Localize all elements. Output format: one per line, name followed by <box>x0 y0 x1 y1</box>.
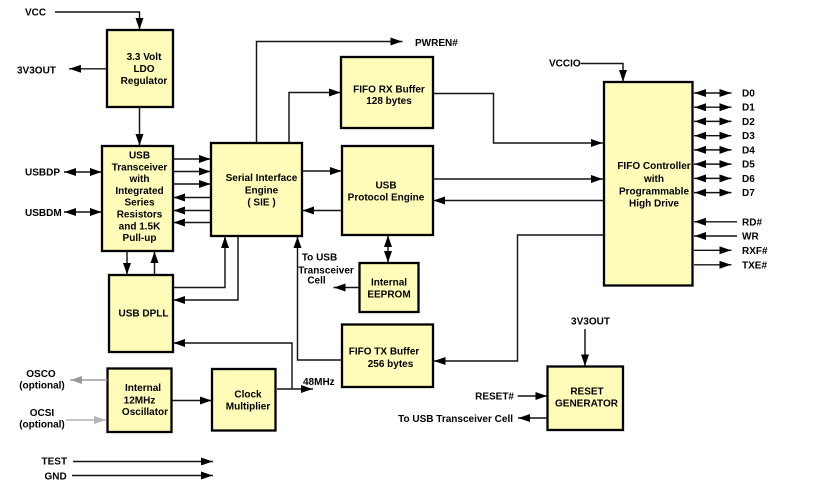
wire clock multiplier 48MHz out <box>277 388 313 390</box>
label TXE# <box>742 260 767 271</box>
svg-text:RD#: RD# <box>742 217 762 228</box>
wire protocol engine to FIFO controller <box>433 178 603 180</box>
label TEST <box>42 457 68 468</box>
wire TXE# out of controller <box>694 264 732 266</box>
wire D3 double arrow <box>694 135 732 137</box>
svg-text:USB DPLL: USB DPLL <box>119 309 169 320</box>
wire SIE to protocol engine <box>302 170 342 172</box>
label RD# <box>742 217 762 228</box>
svg-text:USBDM: USBDM <box>25 208 62 219</box>
wire FIFO controller to FIFO TX buffer <box>434 235 604 361</box>
svg-text:VCC: VCC <box>25 8 46 19</box>
wire RD# into controller <box>694 221 737 223</box>
wire GND arrow <box>72 475 213 477</box>
svg-text:3V3OUT: 3V3OUT <box>17 66 56 77</box>
wire USBDM double arrow <box>64 211 102 213</box>
wire OCSI gray <box>66 419 106 421</box>
label 48MHz <box>303 377 335 388</box>
label D7 <box>742 188 755 199</box>
wire D1 double arrow <box>694 106 732 108</box>
svg-text:InternalEEPROM: InternalEEPROM <box>367 278 410 301</box>
block FIFO Controller <box>604 82 693 286</box>
wire oscillator to clock multiplier <box>172 400 212 402</box>
label WR <box>742 232 759 243</box>
wire transceiver to SIE 2 <box>173 171 211 173</box>
svg-text:To USBTransceiverCell: To USBTransceiverCell <box>298 253 354 287</box>
wire transceiver to SIE 3 <box>173 183 211 185</box>
wire transceiver to DPLL <box>126 251 128 275</box>
svg-text:TXE#: TXE# <box>742 260 767 271</box>
svg-text:GND: GND <box>45 472 67 483</box>
wire SIE to DPLL <box>173 236 238 300</box>
wire D7 double arrow <box>694 192 732 194</box>
svg-text:USBDP: USBDP <box>25 168 60 179</box>
label D4 <box>742 145 755 156</box>
label OCSI (optional) <box>19 408 65 431</box>
block Serial Interface Engine <box>211 143 302 236</box>
block Internal EEPROM <box>360 263 419 312</box>
label VCC <box>25 8 46 19</box>
label D0 <box>742 89 755 100</box>
svg-text:PWREN#: PWREN# <box>415 38 458 49</box>
wire D5 double arrow <box>694 163 732 165</box>
wire 3V3OUT to reset generator <box>584 329 586 367</box>
label RESET# <box>475 392 514 403</box>
wire EEPROM to USB transceiver cell <box>334 287 360 289</box>
wire DPLL to SIE <box>173 236 225 288</box>
wire LDO to USB transceiver <box>139 107 141 146</box>
wire D6 double arrow <box>694 177 732 179</box>
block Clock Multiplier <box>212 369 276 431</box>
wire OSCO gray <box>70 379 108 381</box>
label D6 <box>742 174 755 185</box>
block USB Transceiver <box>102 146 173 251</box>
wire RESET# into reset generator <box>518 395 548 397</box>
block USB DPLL <box>109 275 173 352</box>
label VCCIO <box>549 59 581 70</box>
block Internal 12MHz Oscillator <box>108 369 172 433</box>
svg-text:VCCIO: VCCIO <box>549 59 581 70</box>
block USB Protocol Engine <box>342 146 433 235</box>
wire FIFO RX buffer to FIFO controller <box>433 94 603 144</box>
block RESET GENERATOR <box>548 367 624 431</box>
wire LDO to 3V3OUT <box>69 68 107 70</box>
label D2 <box>742 117 755 128</box>
wire VCC to LDO regulator <box>55 12 140 30</box>
wire SIE to transceiver 3 <box>173 222 211 224</box>
label PWREN# <box>415 38 458 49</box>
wire SIE to FIFO RX buffer <box>289 93 341 144</box>
label D3 <box>742 131 755 142</box>
svg-text:D3: D3 <box>742 131 755 142</box>
wire FIFO controller to protocol engine <box>433 200 603 202</box>
svg-text:RXF#: RXF# <box>742 246 768 257</box>
block FIFO TX Buffer <box>342 325 433 388</box>
svg-text:D1: D1 <box>742 103 755 114</box>
svg-text:D4: D4 <box>742 145 755 156</box>
svg-text:48MHz: 48MHz <box>303 377 335 388</box>
label 3V3OUT (bottom) <box>571 317 610 328</box>
label USBDP <box>25 168 60 179</box>
wire FIFO TX buffer to SIE <box>298 236 343 360</box>
label D1 <box>742 103 755 114</box>
wire SIE to transceiver 2 <box>173 210 211 212</box>
wire SIE to transceiver 1 <box>173 197 211 199</box>
wire RXF# out of controller <box>694 249 732 251</box>
svg-text:D5: D5 <box>742 160 755 171</box>
wire D0 double arrow <box>694 92 732 94</box>
label USBDM <box>25 208 62 219</box>
svg-text:3V3OUT: 3V3OUT <box>571 317 610 328</box>
wire USBDP double arrow <box>64 171 102 173</box>
svg-text:WR: WR <box>742 232 759 243</box>
wire D2 double arrow <box>694 120 732 122</box>
wire DPLL to transceiver <box>154 251 156 275</box>
svg-text:OCSI(optional): OCSI(optional) <box>19 408 65 431</box>
label 3V3OUT <box>17 66 56 77</box>
block FIFO RX Buffer <box>341 57 433 128</box>
label RXF# <box>742 246 768 257</box>
svg-text:RESET#: RESET# <box>475 392 514 403</box>
wire transceiver to SIE 1 <box>173 158 211 160</box>
wire VCCIO to FIFO controller <box>581 64 624 83</box>
wire 48MHz to DPLL <box>173 343 292 389</box>
svg-text:D2: D2 <box>742 117 755 128</box>
label OSCO (optional) <box>19 369 65 392</box>
svg-text:OSCO(optional): OSCO(optional) <box>19 369 65 392</box>
label GND <box>45 472 67 483</box>
wire WR into controller <box>694 235 737 237</box>
svg-text:D0: D0 <box>742 89 755 100</box>
wire reset generator to USB transceiver cell <box>518 417 548 419</box>
svg-text:TEST: TEST <box>42 457 68 468</box>
label D5 <box>742 160 755 171</box>
wire SIE to PWREN# <box>257 42 403 144</box>
label To USB Transceiver Cell (bottom) <box>398 414 513 425</box>
svg-text:To USB Transceiver Cell: To USB Transceiver Cell <box>398 414 513 425</box>
wire protocol engine to EEPROM double arrow <box>387 235 389 263</box>
block 3.3 Volt LDO Regulator <box>107 30 173 107</box>
wire TEST arrow <box>73 461 213 463</box>
wire D4 double arrow <box>694 149 732 151</box>
label To USB Transceiver Cell (upper) <box>298 253 354 287</box>
svg-text:D6: D6 <box>742 174 755 185</box>
svg-text:D7: D7 <box>742 188 755 199</box>
wire protocol engine to SIE <box>302 210 342 212</box>
